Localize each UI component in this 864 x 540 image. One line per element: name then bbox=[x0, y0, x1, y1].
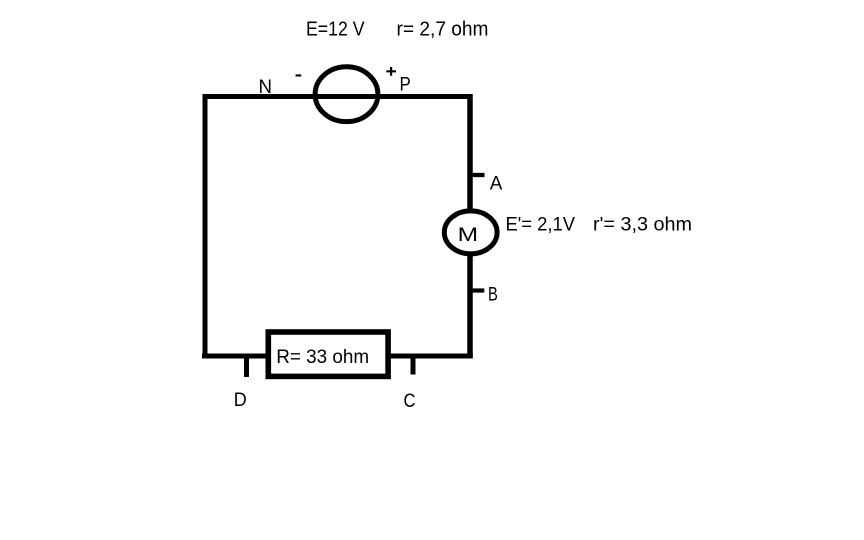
plus sign bbox=[386, 67, 396, 76]
svg-text:A: A bbox=[490, 173, 503, 195]
wire top (N to P) bbox=[203, 94, 473, 99]
svg-text:D: D bbox=[234, 389, 247, 411]
wire bottom bbox=[202, 354, 473, 359]
motor U1 (M) bbox=[444, 211, 497, 254]
node B tick bbox=[473, 288, 485, 292]
svg-text:B: B bbox=[488, 283, 498, 305]
wire left bbox=[203, 94, 208, 359]
svg-text:r'= 3,3 ohm: r'= 3,3 ohm bbox=[593, 214, 692, 236]
svg-text:R= 33 ohm: R= 33 ohm bbox=[276, 346, 369, 368]
node D tick bbox=[244, 356, 249, 377]
minus sign bbox=[296, 74, 302, 76]
node A tick bbox=[473, 173, 485, 177]
resistor R bbox=[268, 332, 388, 376]
wire right bbox=[467, 94, 473, 359]
svg-text:P: P bbox=[400, 74, 411, 96]
svg-text:M: M bbox=[458, 223, 478, 245]
svg-text:r= 2,7 ohm: r= 2,7 ohm bbox=[397, 19, 489, 41]
node C tick bbox=[411, 356, 416, 375]
svg-text:E'= 2,1V: E'= 2,1V bbox=[506, 214, 576, 236]
battery E (generator circle) bbox=[315, 67, 378, 122]
svg-text:C: C bbox=[404, 390, 416, 412]
svg-text:E=12 V: E=12 V bbox=[306, 19, 365, 41]
svg-text:N: N bbox=[259, 76, 273, 98]
